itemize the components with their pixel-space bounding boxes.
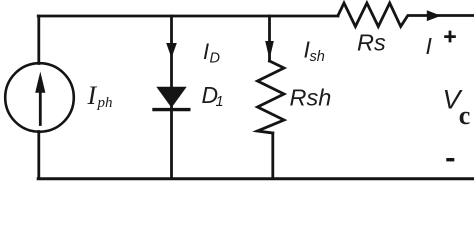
svg-text:Rsh: Rsh	[290, 85, 332, 111]
svg-text:sh: sh	[310, 49, 325, 65]
svg-text:I: I	[426, 33, 433, 59]
svg-text:ph: ph	[97, 95, 113, 111]
svg-text:Rs: Rs	[357, 30, 386, 56]
svg-text:c: c	[459, 101, 471, 130]
svg-text:I: I	[87, 81, 98, 110]
svg-text:D: D	[210, 51, 220, 67]
svg-text:I: I	[203, 39, 209, 64]
svg-text:1: 1	[216, 94, 224, 110]
